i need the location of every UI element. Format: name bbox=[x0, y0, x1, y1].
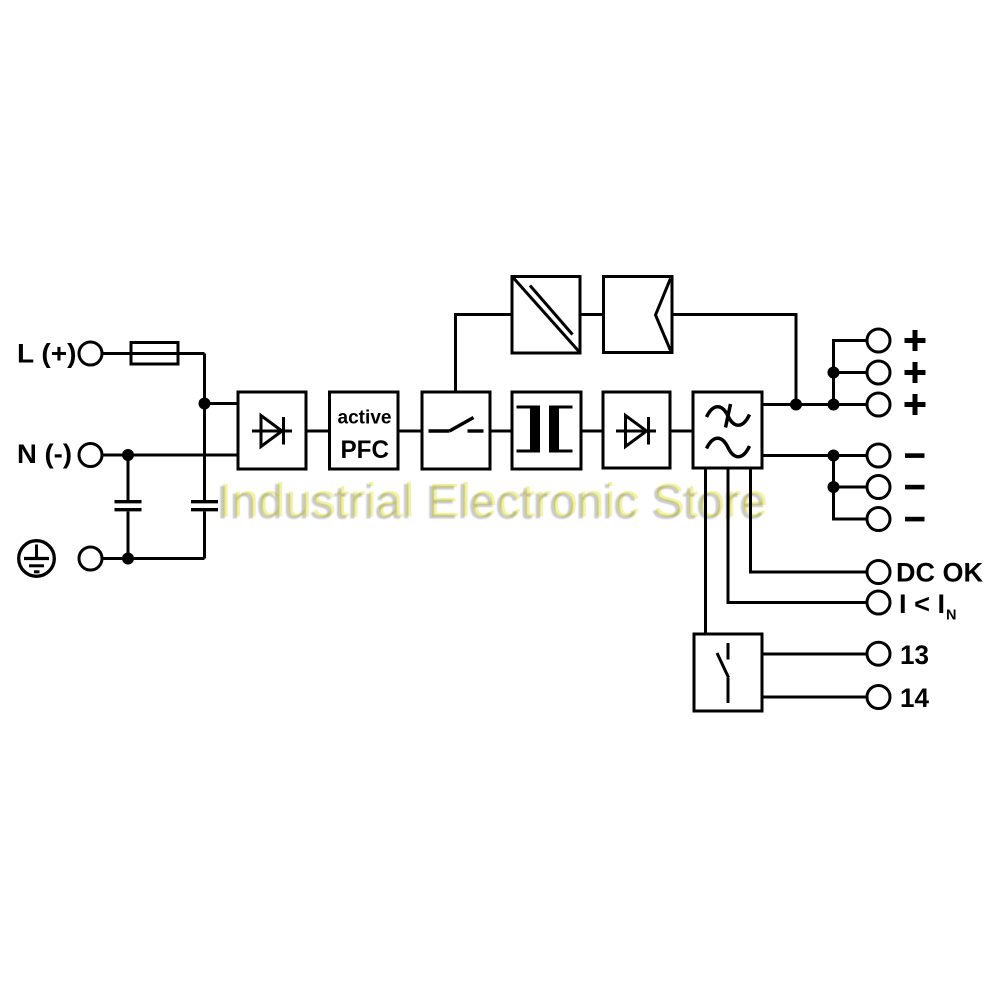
node junction dot minus bus mid bbox=[828, 481, 840, 493]
switch contact symbol S1 bbox=[429, 418, 484, 432]
wire rectifier to PFC bbox=[306, 430, 330, 433]
node junction dot L bus bbox=[199, 398, 211, 410]
wire relay coil feed bbox=[704, 468, 707, 634]
node L(+) input terminal bbox=[79, 342, 102, 365]
label DC OK bbox=[896, 558, 984, 588]
diode symbol D1 inside rectifier bbox=[252, 416, 292, 447]
label minus 3 bbox=[905, 517, 925, 522]
wire N to rectifier lower input bbox=[103, 454, 239, 457]
node I less than IN terminal bbox=[867, 591, 890, 614]
svg-text:DC OK: DC OK bbox=[896, 558, 984, 588]
node minus terminal 1 bbox=[867, 444, 890, 467]
svg-text:N: N bbox=[946, 608, 956, 624]
relay contact symbol bbox=[717, 643, 729, 703]
output filter box U5 bbox=[693, 392, 762, 468]
wire junction to rectifier top input bbox=[205, 402, 239, 405]
svg-text:14: 14 bbox=[900, 683, 929, 713]
label 14 bbox=[900, 683, 929, 713]
boost chevron symbol bbox=[656, 279, 671, 351]
wire C1 top lead bbox=[127, 455, 130, 500]
node terminal 14 bbox=[867, 686, 890, 709]
transformer box T1 bbox=[512, 392, 581, 469]
relay box K1 bbox=[694, 634, 762, 711]
wire transformer to output diode bbox=[581, 430, 603, 433]
DC/DC diagonal symbol bbox=[514, 278, 580, 352]
node junction dot minus bus top bbox=[828, 450, 840, 462]
label minus 1 bbox=[905, 453, 925, 458]
node terminal 13 bbox=[867, 642, 890, 665]
node plus terminal 1 bbox=[867, 329, 890, 352]
node junction dot N to C1 bbox=[122, 449, 134, 461]
boost block box U7 bbox=[604, 277, 673, 353]
label L(+) bbox=[17, 339, 77, 369]
svg-text:N (-): N (-) bbox=[17, 439, 72, 469]
diode symbol D2 bbox=[616, 416, 656, 447]
node plus terminal 3 bbox=[867, 393, 890, 416]
wire C1 bottom lead bbox=[127, 512, 130, 559]
wire L terminal to fuse to corner bbox=[103, 352, 205, 355]
wire plus output rail bbox=[762, 403, 867, 406]
wire C2 bottom lead bbox=[203, 512, 206, 559]
wire minus output rail bbox=[762, 454, 867, 457]
capacitor C1 bbox=[115, 502, 142, 510]
label active bbox=[338, 407, 392, 428]
node earth terminal bbox=[79, 547, 102, 570]
wire boost block to plus rail bbox=[672, 315, 796, 405]
watermark Industrial Electronic Store bbox=[0, 0, 1, 1]
filter ripple symbol lower sine bbox=[707, 438, 750, 456]
svg-text:PFC: PFC bbox=[341, 436, 390, 464]
svg-text:I < I: I < I bbox=[899, 589, 945, 619]
node N(-) input terminal bbox=[79, 444, 102, 467]
node DC OK terminal bbox=[867, 561, 890, 584]
wire diode to output filter bbox=[670, 430, 693, 433]
rectifier bridge box U1 bbox=[238, 392, 306, 469]
capacitor C2 bbox=[191, 502, 218, 510]
node minus terminal 3 bbox=[867, 508, 890, 531]
wire PFC to switch bbox=[398, 430, 422, 433]
fuse F1 bbox=[131, 343, 178, 365]
switching stage box U3 bbox=[422, 392, 490, 469]
transformer winding symbol bbox=[517, 406, 573, 453]
wire I less than IN signal bbox=[728, 468, 867, 603]
wire earth rail bbox=[103, 557, 205, 560]
wire DC/DC to boost block bbox=[580, 313, 604, 316]
label 13 bbox=[900, 640, 929, 670]
label plus 1 bbox=[905, 330, 926, 351]
wire plus bus vertical bbox=[834, 341, 867, 405]
svg-text:Industrial Electronic Store: Industrial Electronic Store bbox=[219, 474, 768, 527]
DC/DC converter box U6 bbox=[512, 277, 580, 354]
node minus terminal 2 bbox=[867, 476, 890, 499]
node junction dot plus bus mid bbox=[828, 367, 840, 379]
svg-text:active: active bbox=[338, 407, 392, 428]
node junction dot earth rail bbox=[122, 553, 134, 565]
filter ripple symbol upper sine with slash bbox=[707, 404, 750, 428]
wire DC OK signal bbox=[751, 468, 867, 572]
label plus 2 bbox=[905, 362, 926, 383]
node junction dot top path to plus rail bbox=[790, 399, 802, 411]
wire minus bus vertical bbox=[834, 456, 867, 520]
wire L vertical drop upper bbox=[203, 354, 206, 501]
wire relay contact 13 bbox=[762, 653, 867, 656]
svg-text:13: 13 bbox=[900, 640, 929, 670]
node plus terminal 2 bbox=[867, 361, 890, 384]
output diode box U4 bbox=[603, 392, 670, 468]
wire minus branch 2 bbox=[834, 486, 867, 489]
label N(-) bbox=[17, 439, 72, 469]
wire switch to transformer bbox=[490, 430, 512, 433]
wire plus branch 2 bbox=[834, 371, 867, 374]
ground protective earth symbol bbox=[19, 541, 55, 577]
label I < IN bbox=[899, 589, 956, 624]
label plus 3 bbox=[905, 394, 926, 415]
label PFC bbox=[341, 436, 390, 464]
label minus 2 bbox=[905, 485, 925, 490]
svg-text:L (+): L (+) bbox=[17, 339, 77, 369]
wire relay contact 14 bbox=[762, 696, 867, 699]
node junction dot plus bus bottom bbox=[828, 399, 840, 411]
wire riser to DC/DC top path bbox=[456, 315, 513, 393]
active PFC box U2 bbox=[330, 392, 399, 469]
